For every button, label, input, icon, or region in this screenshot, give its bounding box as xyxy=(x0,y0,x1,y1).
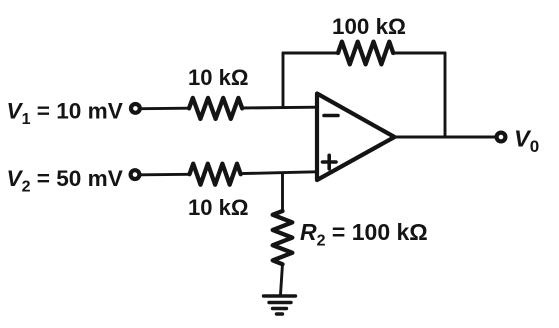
wire down to R2 xyxy=(281,174,284,212)
terminal V0 xyxy=(497,133,506,142)
resistor 10k (inverting input) xyxy=(189,98,242,119)
resistor 10k (non-inverting input) xyxy=(190,164,241,185)
wire feedback top right xyxy=(393,52,445,55)
op-amp U1 xyxy=(317,94,395,181)
op-amp minus pin xyxy=(324,114,338,118)
wire resistor to non-inverting input xyxy=(241,172,317,174)
ground xyxy=(264,296,296,314)
wire resistor to inverting input xyxy=(242,106,317,110)
svg-text:10 kΩ: 10 kΩ xyxy=(188,65,248,90)
svg-text:10 kΩ: 10 kΩ xyxy=(188,195,248,220)
wire feedback top left xyxy=(283,52,338,55)
wire V2 input xyxy=(141,173,190,176)
wire R2 to ground xyxy=(281,264,283,295)
wire feedback right vertical xyxy=(444,53,447,137)
terminal V1 xyxy=(131,104,140,113)
resistor R2 100k (vertical) xyxy=(273,211,293,264)
wire feedback left vertical xyxy=(282,53,285,108)
wire output xyxy=(395,136,496,139)
wire V1 input xyxy=(142,107,190,110)
resistor Rf 100k xyxy=(338,42,393,65)
op-amp plus pin xyxy=(323,155,337,168)
terminal V2 xyxy=(131,170,140,179)
svg-text:100 kΩ: 100 kΩ xyxy=(332,14,406,39)
